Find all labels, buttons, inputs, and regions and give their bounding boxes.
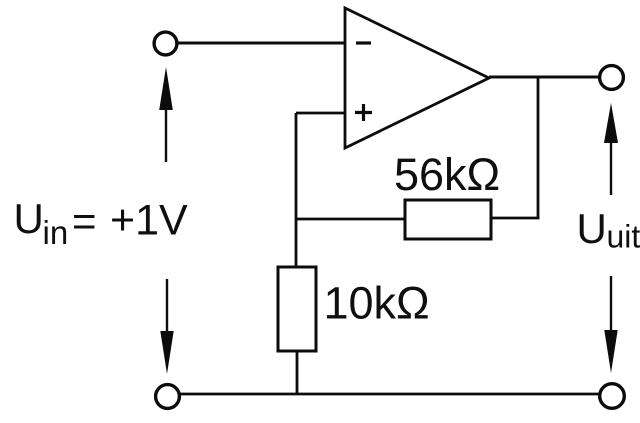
- label Uuit: [577, 205, 640, 255]
- input terminal circle (left top): [154, 32, 177, 55]
- bottom-right terminal circle: [600, 384, 625, 409]
- wire: input terminal to op-amp inverting input: [178, 42, 346, 45]
- svg-text:=: =: [72, 198, 97, 245]
- wire: op-amp output to output terminal: [489, 76, 600, 79]
- output terminal circle (right top): [600, 66, 624, 90]
- svg-text:U: U: [14, 195, 44, 242]
- arrow up (input polarity, left): [159, 67, 173, 162]
- svg-text:U: U: [577, 205, 607, 252]
- wire: bottom rail: [180, 393, 600, 396]
- svg-text:56kΩ: 56kΩ: [394, 149, 500, 200]
- svg-text:10kΩ: 10kΩ: [324, 278, 430, 329]
- bottom-left terminal circle: [156, 385, 180, 409]
- svg-text:uit: uit: [607, 219, 640, 255]
- wire: non-inverting input horizontal: [296, 112, 345, 115]
- svg-text:+1V: +1V: [110, 197, 188, 245]
- arrow down (input polarity, left): [160, 279, 173, 374]
- wire: 10k resistor bottom to rail: [296, 351, 299, 395]
- op-amp U1 triangle: [345, 8, 489, 148]
- resistor 56k ohm (feedback): [405, 200, 491, 239]
- wire: vertical from plus input down to 10k resistor: [295, 113, 298, 268]
- arrow up (output polarity, right): [604, 103, 618, 195]
- arrow down (output polarity, right): [604, 276, 617, 373]
- wire: feedback horizontal to 56k resistor left: [295, 218, 406, 221]
- label Uin = +1V: [14, 195, 189, 251]
- wire: 56k resistor right to vertical riser: [491, 217, 540, 220]
- op-amp plus pin label: [355, 104, 372, 121]
- op-amp minus pin label: [356, 41, 371, 44]
- wire: vertical riser from feedback up to output: [537, 77, 540, 218]
- svg-text:in: in: [43, 214, 69, 251]
- resistor 10k ohm (to ground rail): [278, 267, 316, 351]
